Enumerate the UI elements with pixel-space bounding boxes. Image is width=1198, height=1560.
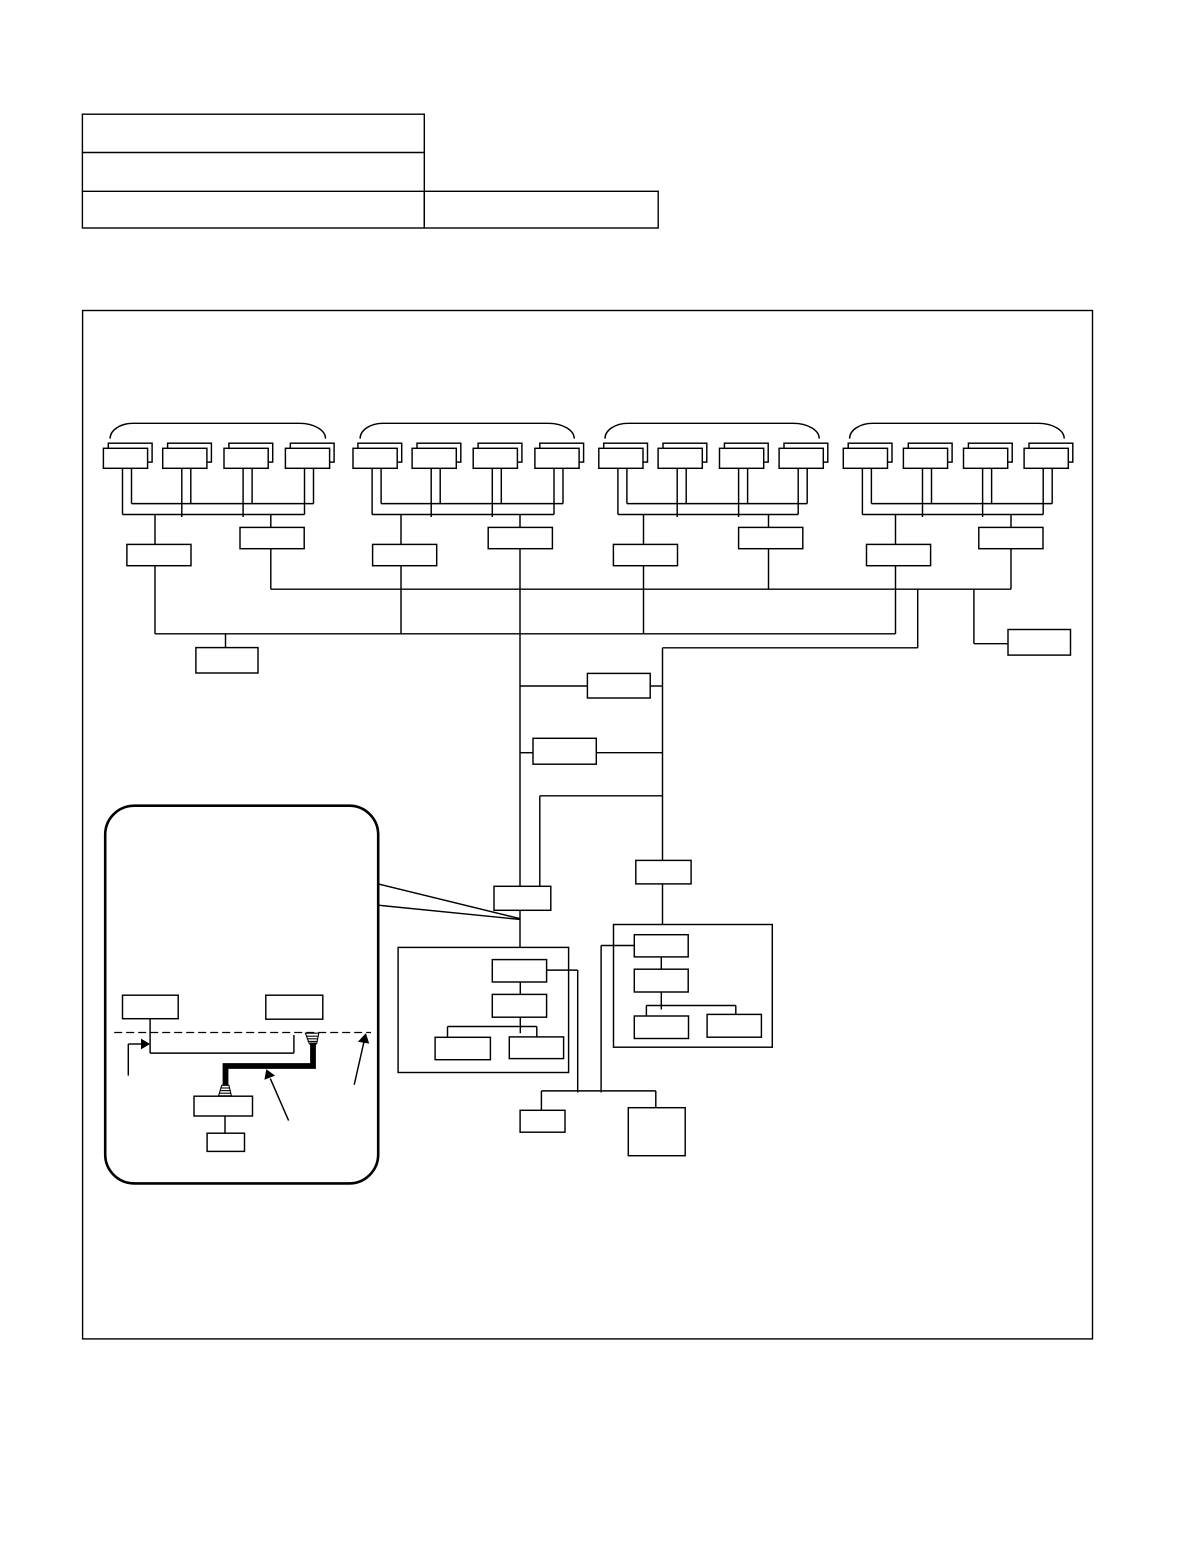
wire bus A (right boxes)	[271, 588, 1011, 590]
wire bridge 1 right	[650, 685, 662, 687]
wire drop to small box	[540, 1091, 542, 1110]
wire left header	[448, 1026, 537, 1028]
wire phone 4-1 left lead	[861, 468, 863, 514]
callout handset box	[207, 1133, 244, 1151]
callout balloon outline	[105, 806, 378, 1184]
wire right header	[646, 1005, 735, 1007]
bridge box 2	[533, 738, 596, 764]
telephone set 2-1	[353, 443, 402, 468]
junction box group 4 left	[867, 544, 931, 565]
wire group 3 right box tap	[768, 515, 770, 528]
right unit box 1	[634, 935, 688, 957]
right unit top box	[636, 860, 691, 884]
telephone set 1-2	[163, 443, 212, 468]
junction box group 2 right	[488, 527, 552, 548]
wire left header right drop	[536, 1027, 538, 1037]
telephone set 2-2	[412, 443, 461, 468]
wire group 4 right box drop	[1010, 549, 1012, 590]
telephone set 2-3	[473, 443, 522, 468]
wire phone 3-1 right lead	[626, 468, 628, 503]
callout dashed wall line	[114, 1032, 371, 1034]
right unit bottom-right box	[707, 1014, 761, 1037]
wire group 4 upper bus	[871, 503, 1052, 505]
wire group 2 left box drop	[400, 566, 402, 634]
right unit container	[614, 925, 773, 1048]
junction box group 1 left	[127, 544, 191, 565]
wire group 1 left box drop	[154, 566, 156, 634]
wire bridge 2 left	[520, 752, 533, 754]
wire right spine into container	[662, 884, 664, 935]
wire group 3 left box drop	[643, 566, 645, 634]
bottom large box	[628, 1108, 685, 1156]
wire phone 4-3 left lead	[982, 468, 984, 517]
telephone set 4-1	[843, 443, 892, 468]
wire group 2 upper bus	[381, 503, 563, 505]
right unit box 2	[634, 969, 688, 992]
arrow 3 (to wall line)	[354, 1033, 369, 1085]
wire left A-B link	[519, 982, 521, 994]
terminal box	[196, 648, 258, 673]
wire group 2 lower bus	[372, 514, 554, 516]
wire right 2 drop	[660, 992, 662, 1010]
wire phone 1-3 left lead	[242, 468, 244, 517]
wire phone 3-4 right lead	[806, 468, 808, 503]
title table row line 2	[82, 190, 424, 192]
arrow 1 (to inside wire)	[128, 1039, 150, 1076]
wire phone 4-4 left lead	[1042, 468, 1044, 514]
wire right unit exit	[601, 946, 634, 1093]
wire group 4 left box drop	[895, 566, 897, 634]
wire group 2 right box tap / main riser	[519, 515, 521, 887]
junction box group 2 left	[373, 544, 437, 565]
plug connector	[219, 1085, 232, 1096]
wire phone 1-4 right lead	[313, 468, 315, 503]
wire to power box	[974, 643, 1008, 645]
wire bus A down-leg	[917, 589, 919, 648]
left unit bottom-right box	[509, 1037, 563, 1059]
wire phone 3-3 left lead	[738, 468, 740, 517]
telephone set 1-4	[285, 443, 334, 468]
group 4 brace arc	[850, 423, 1065, 438]
wire phone 2-3 left lead	[491, 468, 493, 517]
wire left unit exit	[547, 970, 578, 1092]
wire group 3 left box tap	[643, 515, 645, 545]
wire phone 4-3 right lead	[991, 468, 993, 503]
wire phone 3-1 left lead	[617, 468, 619, 514]
wire phone 1-4 left lead	[304, 468, 306, 514]
wire phone 3-2 right lead	[685, 468, 687, 503]
wire bus A down-leg 2	[973, 589, 975, 644]
junction box group 3 right	[739, 527, 803, 548]
left unit box B	[492, 994, 546, 1017]
wire group 1 lower bus	[123, 514, 305, 516]
wire group 4 lower bus	[862, 514, 1043, 516]
telephone set 3-4	[779, 443, 828, 468]
wire phone 4-1 right lead	[870, 468, 872, 503]
wire right 1-2 link	[660, 957, 662, 969]
wire left B drop	[519, 1017, 521, 1033]
telephone set 1-3	[224, 443, 273, 468]
callout pointer lines	[378, 884, 519, 919]
callout box 1	[123, 995, 179, 1019]
wire group 3 upper bus	[627, 503, 807, 505]
wire phone 2-2 left lead	[430, 468, 432, 517]
wire drop to large box	[655, 1091, 657, 1109]
wire bridge 1 left	[520, 685, 587, 687]
telephone set 4-4	[1024, 443, 1073, 468]
group 2 brace arc	[360, 423, 574, 438]
wire group 1 right box drop	[270, 549, 272, 590]
wire phone 2-1 left lead	[371, 468, 373, 514]
group 3 brace arc	[605, 423, 819, 438]
wall jack connector	[305, 1033, 318, 1044]
left unit box A	[492, 960, 546, 982]
wire right spine upper	[662, 648, 664, 861]
wire crossover drop	[539, 796, 541, 887]
wire phone 2-2 right lead	[439, 468, 441, 503]
wire phone 1-1 right lead	[131, 468, 133, 503]
wire left header left drop	[447, 1027, 449, 1038]
wire spine into left container	[519, 910, 521, 959]
wire phone 1-1 left lead	[122, 468, 124, 514]
wire group 3 lower bus	[618, 514, 798, 516]
right unit bottom-left box	[634, 1016, 688, 1039]
telephone set 3-2	[658, 443, 707, 468]
telephone set 3-1	[599, 443, 648, 468]
junction box group 3 left	[613, 544, 677, 565]
wire group 4 left box tap	[895, 515, 897, 545]
wire right header right drop	[735, 1006, 737, 1015]
wire bus B (left boxes)	[155, 633, 896, 635]
wire group 4 right box tap	[1010, 515, 1012, 528]
wire to right spine	[663, 647, 918, 649]
left unit container	[398, 947, 568, 1072]
power box	[1008, 630, 1071, 656]
bridge box 1	[587, 673, 650, 698]
wire group 1 right box tap	[270, 515, 272, 528]
title table row line 1	[82, 152, 424, 154]
callout phone box	[194, 1096, 253, 1116]
wire phone 3-2 left lead	[676, 468, 678, 517]
wire phone 1-3 right lead	[251, 468, 253, 503]
wire phone 1-2 left lead	[181, 468, 183, 517]
callout box 2	[266, 995, 323, 1019]
wire tap to terminal box	[225, 634, 227, 648]
wire group 3 right box drop	[768, 549, 770, 590]
callout wire from box 1	[150, 1019, 294, 1053]
telephone set 4-2	[903, 443, 952, 468]
wire bottom junction bus	[541, 1090, 655, 1092]
junction box group 1 right	[240, 527, 304, 548]
telephone set 1-1	[103, 443, 152, 468]
left unit top box	[494, 886, 551, 910]
group 1 brace arc	[110, 423, 325, 438]
telephone set 4-3	[964, 443, 1013, 468]
wire group 1 left box tap	[154, 515, 156, 545]
telephone set 2-4	[535, 443, 584, 468]
title table outer box	[82, 114, 424, 228]
wire right header left drop	[645, 1006, 647, 1017]
wire phone 3-3 right lead	[747, 468, 749, 503]
wire phone 4-4 right lead	[1051, 468, 1053, 503]
wire phone 1-2 right lead	[190, 468, 192, 503]
wire group 1 upper bus	[132, 503, 314, 505]
wire phone 4-2 left lead	[922, 468, 924, 517]
arrow 2 (to modular cord)	[264, 1069, 288, 1120]
wire phone 2-4 left lead	[553, 468, 555, 514]
wire phone 2-1 right lead	[380, 468, 382, 503]
wire bridge 2 right	[596, 752, 662, 754]
telephone set 3-3	[720, 443, 769, 468]
wire phone 4-2 right lead	[931, 468, 933, 503]
title table right cell	[424, 191, 658, 228]
wire group 2 left box tap	[400, 515, 402, 545]
wire crossover horizontal	[540, 795, 663, 797]
wire callout phone link	[224, 1116, 226, 1133]
wire phone 2-4 right lead	[562, 468, 564, 503]
junction box group 4 right	[979, 527, 1043, 548]
bottom small box	[520, 1110, 565, 1132]
wire phone 2-3 right lead	[500, 468, 502, 503]
modular cord (thick cable)	[226, 1043, 314, 1086]
diagram border frame	[83, 311, 1093, 1339]
wire phone 3-4 left lead	[797, 468, 799, 514]
left unit bottom-left box	[435, 1037, 490, 1059]
